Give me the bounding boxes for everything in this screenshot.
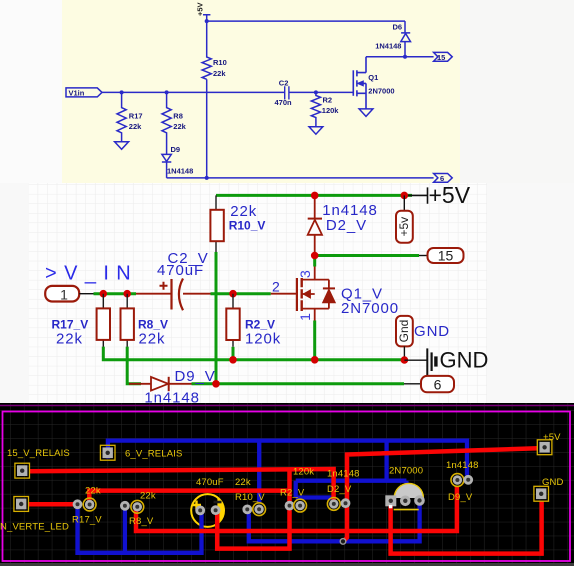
svg-text:2N7000: 2N7000 bbox=[389, 466, 423, 477]
svg-text:R17: R17 bbox=[129, 112, 143, 121]
wire D6 drop bbox=[404, 21, 406, 32]
svg-text:22k: 22k bbox=[139, 331, 166, 348]
top section labels bbox=[69, 2, 446, 183]
node dot top rail / D2 bbox=[311, 192, 319, 200]
resistor R10_V pads bbox=[242, 503, 265, 516]
diode D9_V bbox=[129, 377, 192, 391]
svg-text:D9: D9 bbox=[171, 145, 181, 154]
wire main V1in horizontal bbox=[102, 91, 353, 93]
pad 6_V_RELAIS bbox=[100, 445, 115, 460]
trace blue 6_V_RELAIS pad up to rail and right to D9 right pad bbox=[108, 441, 467, 476]
wire R2 bottom stub bbox=[232, 347, 235, 360]
svg-text:R8_V: R8_V bbox=[129, 516, 154, 527]
node R10/bottom-rail junction dot bbox=[205, 176, 209, 180]
power flag +5V top bbox=[203, 15, 210, 21]
svg-text:R10_V: R10_V bbox=[229, 218, 266, 232]
power symbol +5V bbox=[408, 182, 471, 208]
trace blue R10 riser from 6_V rail bbox=[257, 442, 261, 504]
resistor R8_V pads bbox=[120, 500, 144, 513]
svg-text:R8_V: R8_V bbox=[138, 318, 168, 332]
svg-text:15_V_RELAIS: 15_V_RELAIS bbox=[7, 448, 70, 459]
resistor R17_V pads bbox=[73, 498, 96, 511]
svg-text:N_VERTE_LED: N_VERTE_LED bbox=[0, 522, 69, 533]
pad N_VERTE_LED bbox=[14, 497, 29, 512]
trace blue bottom-mid rail via to Q pin3 bbox=[249, 505, 420, 541]
pad GND bbox=[534, 486, 549, 501]
port 15 flag bbox=[434, 52, 453, 61]
svg-text:>V_IN: >V_IN bbox=[45, 263, 138, 285]
svg-text:1: 1 bbox=[60, 287, 68, 303]
wire R10_V vertical net down to D9 net bbox=[215, 252, 218, 384]
board outline outer purple line bbox=[0, 405, 574, 407]
pad 15_V_RELAIS bbox=[15, 463, 30, 478]
svg-text:+5V: +5V bbox=[196, 2, 205, 16]
svg-text:R10_V: R10_V bbox=[235, 492, 265, 503]
wire R10 bottom to bottom rail (crosses main wire) bbox=[206, 79, 208, 178]
wire +5V top rail bbox=[216, 194, 412, 197]
node dot D2 / node15 bbox=[311, 252, 319, 260]
trace red 15_V_RELAIS rail to D2 left pad bbox=[29, 469, 334, 504]
wire D9 to port 6 bbox=[192, 382, 405, 385]
capacitor C2 bbox=[285, 86, 289, 99]
trace red +5V rail and drop to via bbox=[343, 448, 538, 541]
port V1in flag bbox=[66, 88, 102, 97]
node dot main/R8 bbox=[123, 290, 131, 298]
transistor 2N7000 outline and pads bbox=[385, 483, 425, 509]
svg-text:GND: GND bbox=[440, 348, 489, 373]
resistor R17_V bbox=[97, 294, 110, 347]
wire main V_IN horizontal bbox=[94, 292, 271, 295]
svg-text:GND: GND bbox=[542, 477, 564, 488]
svg-text:D2_V: D2_V bbox=[327, 484, 352, 495]
node D6/15 junction dot bbox=[403, 55, 407, 59]
svg-text:1n4148: 1n4148 bbox=[446, 460, 479, 471]
svg-text:120k: 120k bbox=[245, 331, 281, 348]
diode D2_V pads bbox=[327, 498, 350, 511]
capacitor 470uF silkscreen circle bbox=[191, 494, 224, 527]
svg-text:1n4148: 1n4148 bbox=[327, 469, 360, 480]
ground under R2 bbox=[309, 127, 323, 135]
node dot top rail / +5V bbox=[401, 192, 409, 200]
node C2/R2 junction dot bbox=[314, 90, 318, 94]
trace red GND rail Q pin1 to GND pad bbox=[391, 501, 542, 554]
node dot main/R17 bbox=[100, 290, 108, 298]
port +5v bbox=[396, 195, 413, 242]
svg-text:GND: GND bbox=[414, 323, 450, 340]
ground under Q1 source bbox=[359, 109, 373, 117]
port 6 bbox=[404, 376, 454, 393]
svg-text:470n: 470n bbox=[275, 98, 293, 107]
trace red N_VERTE_LED to R17 left bbox=[29, 502, 74, 507]
resistor R2 bbox=[311, 92, 320, 126]
svg-text:2: 2 bbox=[272, 279, 280, 295]
svg-text:470uF: 470uF bbox=[196, 477, 224, 488]
svg-text:470uF: 470uF bbox=[157, 262, 204, 279]
svg-text:V1in: V1in bbox=[69, 88, 85, 97]
pad +5V bbox=[537, 440, 552, 455]
resistor R2_V bbox=[226, 294, 239, 347]
svg-text:R17_V: R17_V bbox=[72, 515, 102, 526]
transistor Q1 2N7000 bbox=[353, 57, 366, 109]
resistor R10_V bbox=[210, 195, 223, 252]
svg-text:C2: C2 bbox=[279, 79, 289, 88]
svg-text:1N4148: 1N4148 bbox=[375, 42, 401, 51]
svg-text:22k: 22k bbox=[235, 477, 251, 488]
resistor R10 bbox=[202, 21, 211, 79]
ground under R17 bbox=[115, 142, 129, 150]
ground symbol GND bbox=[404, 348, 488, 376]
trace red R17-right rail bbox=[89, 491, 289, 503]
capacitor C2_V bbox=[136, 279, 211, 311]
svg-text:1: 1 bbox=[297, 313, 313, 321]
wire Q1 source to GND rail bbox=[313, 321, 316, 360]
svg-text:6: 6 bbox=[434, 377, 442, 393]
node dot main/R2 bbox=[229, 290, 237, 298]
svg-text:D6: D6 bbox=[393, 23, 403, 32]
transistor Q1_V 2N7000 bbox=[271, 267, 335, 321]
svg-text:120k: 120k bbox=[293, 467, 314, 478]
trace blue bottom-left rail R17/R8/C+ bbox=[78, 508, 202, 553]
Q1 bulk arrow bbox=[357, 81, 363, 86]
node R17 junction dot bbox=[120, 90, 124, 94]
svg-text:22k: 22k bbox=[140, 491, 156, 502]
svg-text:6_V_RELAIS: 6_V_RELAIS bbox=[125, 448, 182, 459]
svg-text:R2: R2 bbox=[323, 95, 333, 104]
svg-text:3: 3 bbox=[297, 270, 313, 278]
svg-text:22k: 22k bbox=[173, 122, 186, 131]
diode D9 bbox=[162, 154, 171, 161]
wire drain to port 15 bbox=[366, 56, 434, 58]
svg-text:D9_V: D9_V bbox=[175, 368, 216, 385]
node R8 junction dot bbox=[165, 90, 169, 94]
svg-text:R17_V: R17_V bbox=[52, 318, 89, 332]
node dot GND rail/R2 bbox=[229, 356, 237, 364]
node +5V/R10 junction dot bbox=[205, 19, 209, 23]
board outline magenta rectangle bbox=[3, 412, 571, 562]
svg-text:15: 15 bbox=[438, 248, 454, 264]
svg-text:+5v: +5v bbox=[397, 217, 411, 237]
svg-text:R10: R10 bbox=[213, 58, 227, 67]
svg-text:D2_V: D2_V bbox=[326, 217, 367, 234]
svg-text:22k: 22k bbox=[85, 486, 101, 497]
svg-text:+5V: +5V bbox=[429, 182, 471, 208]
diode D6 bbox=[401, 33, 411, 42]
svg-text:R2_V: R2_V bbox=[280, 488, 305, 499]
node dot D9 net / R10 vertical bbox=[212, 380, 220, 388]
wire +5V rail bbox=[207, 20, 405, 22]
wire R8 to D9 bbox=[127, 347, 141, 384]
svg-text:Gnd: Gnd bbox=[397, 320, 411, 343]
port Gnd bbox=[396, 316, 413, 360]
svg-text:22k: 22k bbox=[56, 331, 83, 348]
wire Q1 drain stub bbox=[313, 256, 316, 267]
wire node15 horizontal bbox=[315, 254, 419, 257]
resistor R17 bbox=[117, 92, 126, 141]
svg-text:22k: 22k bbox=[129, 122, 142, 131]
port 1 bbox=[45, 286, 93, 303]
trace blue riser to mid rail, D2-left / T-middle branch bbox=[296, 442, 407, 498]
wire GND rail bbox=[103, 347, 404, 360]
via bbox=[340, 539, 346, 545]
port 15 bbox=[419, 248, 464, 264]
wire bottom rail to port 6 bbox=[167, 177, 434, 179]
node dot GND rail/Q1 source bbox=[311, 356, 319, 364]
svg-text:15: 15 bbox=[437, 53, 445, 62]
svg-text:D9_V: D9_V bbox=[448, 492, 473, 503]
resistor R8_V bbox=[121, 294, 134, 347]
diode D2_V bbox=[308, 195, 322, 255]
svg-text:R8: R8 bbox=[173, 112, 183, 121]
diode D9_V pads bbox=[451, 474, 473, 487]
svg-text:120k: 120k bbox=[322, 106, 340, 115]
trace red branch down to R2 left pad and bottom rails bbox=[217, 470, 289, 548]
node dot GND rail/Gnd port bbox=[401, 356, 409, 364]
port 6 flag bbox=[434, 174, 453, 183]
trace red bottom rail1 R8 to D9 bbox=[136, 487, 457, 532]
svg-text:+5V: +5V bbox=[543, 432, 561, 443]
resistor R8 bbox=[162, 92, 171, 154]
capacitor 470uF pads bbox=[192, 501, 222, 516]
svg-text:22k: 22k bbox=[213, 69, 226, 78]
svg-text:Q1: Q1 bbox=[368, 73, 378, 82]
svg-text:1N4148: 1N4148 bbox=[167, 167, 193, 176]
svg-text:2N7000: 2N7000 bbox=[341, 300, 399, 317]
svg-text:R2_V: R2_V bbox=[245, 318, 275, 332]
svg-text:2N7000: 2N7000 bbox=[368, 86, 394, 95]
resistor R2_V pads bbox=[285, 499, 307, 512]
